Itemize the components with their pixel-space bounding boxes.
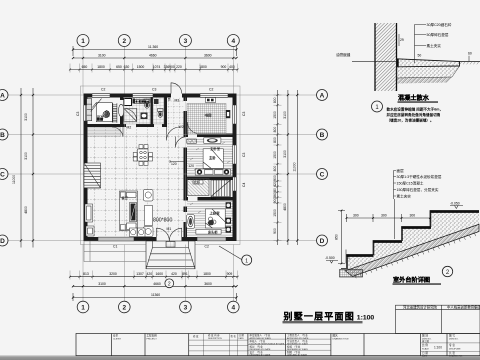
svg-text:29: 29 — [400, 38, 404, 42]
gravel layer below apron — [397, 66, 460, 78]
svg-text:3600: 3600 — [204, 54, 212, 58]
sloped rubble band — [345, 224, 479, 276]
svg-text:CHECKED BY /DATE: CHECKED BY /DATE — [287, 353, 308, 356]
svg-text:900: 900 — [273, 175, 277, 181]
svg-text:1800: 1800 — [97, 65, 105, 69]
WC basin — [154, 99, 159, 104]
grid lines right — [237, 95, 317, 241]
svg-text:400: 400 — [229, 65, 235, 69]
bedroom3 crib/tub — [186, 215, 194, 229]
wash basin — [141, 113, 148, 120]
armchair lower — [144, 227, 154, 237]
svg-text:M3: M3 — [175, 99, 180, 103]
bedroom3 bed — [205, 209, 225, 228]
svg-text:3100: 3100 — [98, 54, 106, 58]
svg-text:813: 813 — [83, 272, 89, 276]
svg-text:1074: 1074 — [153, 65, 161, 69]
svg-text:混凝土散水: 混凝土散水 — [398, 94, 430, 102]
dimension row total (bottom) — [73, 293, 237, 301]
apron slab with stipple — [397, 59, 460, 67]
svg-text:图 别: 图 别 — [422, 334, 428, 338]
svg-text:300: 300 — [353, 214, 359, 218]
svg-text:420: 420 — [273, 181, 277, 187]
detail: concrete apron wall hatch — [375, 23, 397, 91]
detail marker 1 with leader (bottom right of plan) — [219, 246, 242, 260]
svg-text:3100: 3100 — [283, 150, 287, 158]
svg-text:C3: C3 — [76, 112, 80, 116]
svg-text:DESCRIPTION: DESCRIPTION — [208, 338, 222, 340]
interior wall corridor left — [164, 98, 167, 125]
svg-text:日 期: 日 期 — [422, 351, 428, 355]
svg-text:11000: 11000 — [12, 175, 16, 184]
detail 1 bubble — [372, 101, 383, 112]
svg-text:并应在房屋转角处做对角缝留切角: 并应在房屋转角处做对角缝留切角 — [387, 112, 441, 117]
study door arc — [187, 122, 196, 134]
svg-text:共 张: 共 张 — [449, 351, 455, 355]
dining table set — [133, 145, 152, 166]
interior wall study/bedroom — [184, 134, 233, 138]
leader vertical + labels — [415, 25, 427, 64]
svg-text:1: 1 — [81, 305, 85, 312]
svg-text:891: 891 — [182, 272, 188, 276]
interior wall bath divider — [151, 98, 154, 125]
svg-text:800: 800 — [273, 166, 277, 172]
svg-text:1500: 1500 — [273, 151, 277, 159]
svg-text:审定批准人 /专业: 审定批准人 /专业 — [250, 333, 271, 337]
wall left exterior — [84, 98, 88, 238]
svg-text:日 期: 日 期 — [239, 333, 245, 337]
dimension row detail (bottom) — [70, 276, 238, 278]
svg-text:850: 850 — [335, 234, 339, 240]
svg-text:C2: C2 — [205, 245, 209, 249]
svg-text:工程名称: 工程名称 — [147, 334, 158, 338]
svg-text:C4: C4 — [242, 183, 246, 187]
interior wall closet/bathroom2 — [184, 197, 233, 201]
hall door arc — [112, 127, 123, 137]
WC toilet — [158, 109, 164, 112]
svg-text:DRAWING TITLE: DRAWING TITLE — [333, 337, 350, 340]
svg-text:B: B — [320, 132, 325, 139]
svg-text:420: 420 — [171, 272, 177, 276]
entry double door arcs M1 — [157, 228, 182, 241]
svg-text:PROJECT: PROJECT — [147, 338, 158, 340]
svg-text:4660: 4660 — [153, 282, 161, 286]
dim 170 — [345, 250, 347, 264]
bedroom2 nightstand hatched — [187, 139, 197, 143]
svg-text:油膏嵌缝: 油膏嵌缝 — [336, 52, 351, 57]
svg-text:河北省建筑设计研究院: 河北省建筑设计研究院 — [403, 305, 438, 310]
svg-text:校对 /专业: 校对 /专业 — [250, 344, 264, 348]
grid bubbles A-D right — [317, 90, 328, 101]
svg-text:1800: 1800 — [203, 272, 211, 276]
svg-text:3: 3 — [184, 305, 188, 312]
left total dim 11000 — [20, 88, 22, 248]
closet zone: wardrobe hatched — [188, 179, 210, 196]
svg-text:修 改 内 容: 修 改 内 容 — [208, 333, 220, 337]
concrete body stipple under steps — [345, 212, 479, 271]
footing block — [340, 270, 363, 278]
svg-text:3100: 3100 — [283, 111, 287, 119]
svg-text:CLIENT: CLIENT — [113, 338, 121, 340]
svg-text:C2: C2 — [101, 88, 105, 92]
bedroom 1 (top-left) furniture — [87, 99, 124, 123]
detail bubble 2 on dim row — [165, 279, 174, 288]
svg-text:1500: 1500 — [137, 65, 145, 69]
dimension row detail (top) — [70, 69, 238, 71]
svg-text:D: D — [320, 238, 325, 245]
interior wall below bedroom/bath band — [84, 124, 168, 127]
grid centerlines through plan — [88, 98, 233, 238]
svg-text:C: C — [320, 171, 325, 178]
dim 120 labels — [188, 164, 196, 168]
svg-text:专业负责人 /专业: 专业负责人 /专业 — [287, 339, 308, 343]
grid bubbles 1-4 top — [77, 35, 89, 47]
svg-text:衣柜: 衣柜 — [194, 179, 201, 184]
eave outline around plan — [81, 86, 241, 245]
svg-text:11.360: 11.360 — [148, 45, 158, 49]
bedroom3 counter bottom — [196, 229, 221, 234]
svg-text:C: C — [0, 171, 5, 178]
svg-text:DESIGNED BY /DATE: DESIGNED BY /DATE — [250, 353, 271, 356]
right total dim — [296, 90, 298, 245]
svg-text:素土夹实: 素土夹实 — [397, 194, 412, 199]
svg-text:50厚碎石垫层: 50厚碎石垫层 — [427, 32, 449, 37]
svg-text:50: 50 — [418, 54, 422, 58]
coffee table — [145, 206, 153, 226]
svg-text:制图 /专业: 制图 /专业 — [287, 350, 301, 354]
toilet 1 — [144, 99, 150, 103]
svg-text:主卧: 主卧 — [209, 155, 216, 160]
svg-text:650: 650 — [82, 65, 88, 69]
svg-text:A: A — [320, 92, 325, 99]
svg-text:4: 4 — [231, 305, 235, 312]
ticks below rubble band — [355, 234, 476, 279]
riser thick edges — [347, 212, 431, 269]
svg-text:-0.050: -0.050 — [450, 202, 460, 206]
bathroom counter with dots — [135, 100, 150, 104]
wall right exterior — [233, 98, 237, 238]
svg-text:800: 800 — [273, 97, 277, 103]
svg-text:签 名: 签 名 — [231, 334, 237, 338]
svg-text:2: 2 — [122, 38, 126, 45]
svg-text:C3: C3 — [152, 88, 156, 92]
svg-text:120: 120 — [171, 162, 177, 166]
svg-text:书房: 书房 — [205, 113, 213, 118]
WC (small, right of bath) tiled — [153, 98, 164, 125]
svg-text:1: 1 — [81, 38, 85, 45]
bedroom 2 (middle-right) wood floor stripes — [187, 140, 233, 176]
living room tile grid 800x800 — [88, 127, 184, 237]
soil hatch below — [397, 77, 453, 84]
svg-text:650: 650 — [116, 65, 122, 69]
svg-text:图 号: 图 号 — [449, 334, 455, 338]
cabinet 2 left wall — [86, 226, 94, 236]
svg-text:900: 900 — [169, 65, 175, 69]
svg-text:图名: 图名 — [333, 334, 339, 338]
svg-text:DWG NO.: DWG NO. — [449, 339, 459, 341]
bedroom3 wall cabinets dark — [226, 202, 231, 232]
step treads thick — [347, 212, 480, 256]
svg-text:4660: 4660 — [149, 54, 157, 58]
svg-text:120: 120 — [188, 164, 194, 168]
ground line right — [460, 61, 480, 63]
right detail dims — [277, 90, 279, 245]
grid extension lines bottom — [83, 245, 233, 302]
svg-text:900: 900 — [221, 65, 227, 69]
bedroom2 headboard + nightstands — [195, 169, 230, 175]
svg-text:M4: M4 — [168, 96, 172, 101]
left segment dims — [32, 88, 34, 248]
svg-text:4800: 4800 — [24, 206, 28, 214]
svg-text:DISCIPLINE: DISCIPLINE — [449, 348, 461, 350]
svg-text:1800: 1800 — [199, 65, 207, 69]
svg-text:M4: M4 — [211, 197, 216, 201]
back door arc at top wall — [171, 83, 182, 94]
grid extension lines top — [83, 47, 233, 94]
svg-text:M1: M1 — [167, 227, 172, 231]
bedroom2 door arc — [176, 137, 187, 148]
svg-text:800*800: 800*800 — [153, 218, 172, 224]
svg-text:630: 630 — [124, 65, 130, 69]
svg-text:1307: 1307 — [136, 272, 144, 276]
appliances near entry — [130, 228, 146, 237]
svg-text:C1: C1 — [113, 245, 117, 249]
svg-text:1:100: 1:100 — [434, 346, 442, 350]
corridor tile grid — [167, 98, 184, 128]
grid lines left — [8, 95, 84, 241]
study (top-right) crosshatch floor — [187, 104, 226, 135]
svg-text:D: D — [0, 238, 5, 245]
svg-text:散水应设置伸缩缝 间距不大于6m，: 散水应设置伸缩缝 间距不大于6m， — [387, 107, 444, 112]
svg-text:1500: 1500 — [273, 209, 277, 217]
wall bottom exterior — [84, 237, 237, 241]
joint (dark) — [397, 59, 399, 67]
svg-text:校核 /专业: 校核 /专业 — [287, 344, 301, 348]
dimension row total 11360 (top) — [73, 46, 237, 56]
bathroom washer box — [124, 99, 132, 106]
svg-text:厨房: 厨房 — [139, 99, 146, 104]
svg-text:4800: 4800 — [283, 203, 287, 211]
svg-text:比 例: 比 例 — [422, 343, 428, 347]
svg-text:室外台阶详图: 室外台阶详图 — [393, 276, 430, 284]
svg-text:C3: C3 — [242, 112, 246, 116]
svg-text:360: 360 — [273, 192, 277, 198]
cabinet on left wall — [85, 204, 93, 222]
bedroom2 bed — [203, 149, 223, 169]
svg-text:3200: 3200 — [109, 272, 117, 276]
svg-text:C2: C2 — [209, 88, 213, 92]
svg-text:3: 3 — [184, 38, 188, 45]
bedroom3 (bottom-right) wood floor stripes — [187, 202, 233, 236]
interior wall bedroom1 right — [120, 98, 124, 128]
dim 850 left — [338, 211, 345, 264]
svg-text:床头柜: 床头柜 — [208, 229, 218, 234]
staircase left — [84, 163, 101, 188]
svg-text:业主: 业主 — [113, 334, 119, 338]
svg-text:中人栈高创新教育集团: 中人栈高创新教育集团 — [447, 305, 480, 310]
svg-text:W2: W2 — [179, 125, 184, 129]
steps profile — [341, 211, 479, 269]
svg-text:M2: M2 — [127, 126, 132, 130]
svg-text:3100: 3100 — [98, 282, 106, 286]
svg-text:修 改: 修 改 — [193, 334, 199, 338]
svg-text:审核人 /专业: 审核人 /专业 — [250, 339, 266, 343]
grid bubbles 1-4 bottom — [77, 301, 89, 313]
svg-text:80: 80 — [273, 188, 277, 192]
svg-text:300: 300 — [410, 214, 416, 218]
svg-text:B: B — [0, 132, 5, 139]
svg-text:11360: 11360 — [151, 293, 160, 297]
svg-text:900: 900 — [273, 228, 277, 234]
svg-text:170: 170 — [347, 254, 351, 260]
study desk — [206, 98, 216, 103]
title block upper table — [396, 305, 480, 333]
title block main table — [76, 334, 480, 356]
interior wall corridor right (long) — [184, 98, 188, 238]
bedroom1 corner plant (scribble) — [103, 111, 110, 118]
svg-text:30厚1:3干硬性水泥砂浆垫层: 30厚1:3干硬性水泥砂浆垫层 — [397, 174, 442, 179]
porch with steps — [146, 241, 195, 269]
svg-text:3100: 3100 — [24, 152, 28, 160]
svg-text:DATE: DATE — [239, 337, 245, 340]
internal staircase — [211, 180, 231, 197]
shower quarter circle — [124, 109, 137, 122]
small dim 29 on wall — [398, 34, 400, 46]
svg-text:900: 900 — [273, 198, 277, 204]
svg-text:SCALE: SCALE — [422, 347, 429, 350]
corridor-to-living door arc — [167, 127, 181, 141]
svg-text:主卧室: 主卧室 — [210, 146, 221, 151]
svg-text:150厚C15混凝土: 150厚C15混凝土 — [397, 181, 424, 186]
svg-text:420: 420 — [146, 272, 152, 276]
svg-text:客厅: 客厅 — [122, 196, 129, 201]
svg-text:3600: 3600 — [204, 282, 212, 286]
svg-text:工程负责人 /专业: 工程负责人 /专业 — [287, 333, 308, 337]
svg-text:1500: 1500 — [273, 111, 277, 119]
svg-text:设计 /专业: 设计 /专业 — [250, 350, 264, 354]
svg-text:60: 60 — [468, 52, 472, 56]
svg-text:C3: C3 — [242, 153, 246, 157]
terrace outline bottom-left — [84, 241, 146, 262]
svg-text:150厚砖石垫层，分层夹实: 150厚砖石垫层，分层夹实 — [397, 187, 439, 192]
svg-text:面层: 面层 — [397, 168, 405, 173]
steps callout note list — [394, 171, 397, 240]
study bookshelf — [226, 110, 231, 118]
bathroom (top-middle) tiled floor — [124, 98, 151, 125]
svg-text:1600: 1600 — [156, 272, 164, 276]
bottom edge gray bar — [0, 0, 1, 1]
svg-text:素土夹实: 素土夹实 — [427, 43, 442, 48]
grid bubbles A-D left (half visible) — [0, 90, 8, 101]
svg-text:800: 800 — [273, 127, 277, 133]
svg-text:2: 2 — [168, 281, 171, 287]
svg-text:4: 4 — [231, 38, 235, 45]
svg-text:（缝宽20，沩青油膏嵌缝）。: （缝宽20，沩青油膏嵌缝）。 — [387, 118, 434, 123]
right segment dims — [287, 90, 289, 245]
TV / cabinet unit living room — [120, 191, 138, 231]
svg-text:卧室: 卧室 — [97, 114, 104, 119]
svg-text:DRAWING NO.: DRAWING NO. — [449, 355, 463, 358]
bedroom2 dresser with mirror — [204, 138, 221, 144]
detail 2 bubble — [442, 266, 452, 276]
wall top exterior — [84, 94, 237, 98]
svg-text:DATE: DATE — [422, 355, 428, 358]
svg-text:30厚C20细石砛: 30厚C20细石砛 — [427, 22, 452, 27]
svg-text:300: 300 — [381, 214, 387, 218]
interior wall bedroom/closet — [184, 177, 233, 181]
svg-text:上卧室: 上卧室 — [210, 210, 221, 215]
dimension row segments (top) — [73, 57, 237, 59]
dim row 300x3 — [347, 211, 431, 223]
svg-text:220: 220 — [176, 65, 182, 69]
svg-text:专 业: 专 业 — [449, 343, 455, 347]
svg-text:909: 909 — [227, 272, 233, 276]
svg-text:3100: 3100 — [24, 113, 28, 121]
svg-text:11000: 11000 — [292, 162, 296, 171]
armchair upper — [144, 190, 154, 202]
svg-text:800: 800 — [273, 137, 277, 143]
svg-text:2: 2 — [122, 305, 126, 312]
svg-text:1: 1 — [245, 258, 248, 264]
svg-text:A: A — [0, 92, 5, 99]
svg-text:-0.500: -0.500 — [325, 256, 335, 260]
hallway wood floor band — [88, 128, 121, 137]
dimension row segments (bottom) — [73, 285, 237, 287]
